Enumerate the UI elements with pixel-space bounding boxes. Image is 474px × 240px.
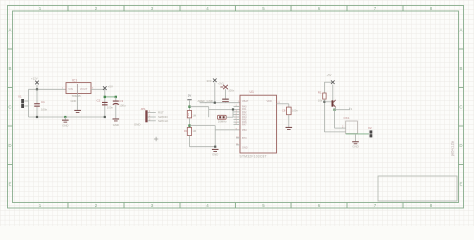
- opto OK1 box: [346, 121, 358, 134]
- regulator IC1: [66, 83, 91, 94]
- wire VDD down: [288, 104, 290, 107]
- frame row letters right: [459, 28, 462, 187]
- green wire to X2: [346, 133, 369, 135]
- wire C1 bottom: [36, 107, 38, 117]
- frame column ticks top: [68, 6, 403, 12]
- sheet origin cross: [154, 137, 158, 141]
- svg-text:VBAT: VBAT: [242, 100, 249, 103]
- svg-text:100n: 100n: [41, 108, 48, 112]
- svg-text:C: C: [459, 105, 462, 110]
- wire xtal1 to IC: [209, 108, 240, 110]
- regulator gnd pin: [77, 94, 79, 110]
- crystal Q1: [218, 115, 227, 119]
- svg-text:1M: 1M: [192, 129, 196, 133]
- pin stubs left: [234, 107, 241, 145]
- svg-text:C3: C3: [119, 99, 123, 103]
- pin numbers left: [236, 101, 240, 145]
- junction gnd run: [214, 146, 216, 148]
- supply star symbol: [220, 85, 228, 89]
- wire to net stub: [335, 109, 350, 111]
- svg-text:1M: 1M: [192, 114, 196, 118]
- connector X1: [21, 99, 24, 103]
- svg-text:PA7: PA7: [242, 124, 247, 127]
- svg-text:R3: R3: [184, 129, 188, 133]
- svg-text:100n: 100n: [228, 88, 234, 92]
- JP1 pin 3: [148, 120, 156, 122]
- wire xtal2 route: [214, 126, 216, 147]
- svg-text:100n: 100n: [292, 108, 298, 112]
- junction C1 bottom: [36, 116, 38, 118]
- supply X right: [331, 80, 335, 84]
- svg-text:SWCLK: SWCLK: [158, 119, 168, 123]
- svg-text:B: B: [460, 66, 463, 71]
- wire regulator output: [91, 88, 105, 90]
- op IC U1 box: [240, 95, 277, 153]
- wire output down: [104, 89, 106, 117]
- capacitor C2: [102, 102, 108, 103]
- resistor R5: [323, 93, 326, 99]
- ground opto: [352, 141, 359, 142]
- wire supply down: [214, 83, 216, 103]
- svg-text:VIN: VIN: [68, 87, 73, 91]
- wire C3 bottom: [115, 105, 117, 119]
- connector JP1: [145, 110, 147, 122]
- svg-text:A: A: [460, 28, 463, 33]
- frame row ticks right: [459, 49, 464, 165]
- svg-text:2V: 2V: [188, 94, 192, 98]
- node junction on input rail: [36, 88, 38, 90]
- svg-text:PB0: PB0: [242, 129, 247, 132]
- svg-text:B: B: [9, 66, 12, 71]
- svg-text:GND: GND: [242, 147, 248, 150]
- svg-text:GND: GND: [62, 124, 68, 128]
- supply +5V symbol: [103, 86, 107, 90]
- frame column numbers bottom: [39, 203, 433, 208]
- junction xtal1: [232, 108, 234, 110]
- ground GND1: [64, 117, 66, 120]
- wire C1 top: [36, 89, 38, 103]
- wire C5 to aref: [225, 101, 227, 104]
- svg-text:16MHz: 16MHz: [218, 120, 227, 124]
- svg-text:RST: RST: [158, 111, 164, 115]
- svg-text:78M05: 78M05: [72, 94, 82, 98]
- svg-text:10k: 10k: [318, 98, 323, 102]
- wire supply to rail: [36, 85, 38, 90]
- svg-text:X1: X1: [18, 95, 22, 99]
- ground mid: [212, 149, 219, 150]
- wire AREF to IC: [200, 102, 240, 104]
- supply bar R net top: [187, 98, 191, 101]
- svg-text:+5V: +5V: [327, 73, 332, 77]
- wire down from emitter: [334, 110, 336, 128]
- svg-text:pcb v1.2a: pcb v1.2a: [451, 141, 455, 156]
- svg-text:C8: C8: [282, 108, 286, 112]
- svg-text:C1: C1: [41, 100, 45, 104]
- crystal right stub: [226, 116, 233, 118]
- svg-text:STM32F103C8T: STM32F103C8T: [240, 155, 267, 159]
- svg-text:R2: R2: [186, 112, 190, 116]
- ground right of IC: [286, 127, 293, 128]
- ground under regulator: [74, 110, 81, 111]
- wire vertical input: [28, 89, 30, 117]
- resistor R3 vertical: [187, 128, 191, 136]
- svg-text:VOUT: VOUT: [80, 87, 88, 91]
- junction AREF: [214, 102, 216, 104]
- supply +12V symbol: [35, 81, 39, 85]
- wire chain lower to xtal2: [190, 125, 216, 127]
- JP1 pin 1: [148, 112, 156, 114]
- pin names inside: [242, 100, 272, 150]
- wire R5 bottom: [323, 99, 325, 132]
- junction emitter green: [333, 109, 335, 111]
- wire top cap chain: [189, 100, 191, 110]
- svg-text:GND: GND: [134, 122, 140, 126]
- junction base: [323, 101, 325, 103]
- svg-text:R1: R1: [318, 91, 322, 95]
- svg-text:D: D: [459, 143, 462, 148]
- svg-text:IC1: IC1: [72, 79, 77, 83]
- frame row letters left: [8, 28, 11, 187]
- capacitor C3 electrolytic: [115, 97, 117, 101]
- junction gnd tap: [64, 116, 66, 118]
- JP1 pin 2: [148, 116, 156, 118]
- svg-text:E: E: [9, 182, 12, 187]
- junction green left: [104, 96, 106, 98]
- wire top rail: [324, 81, 332, 83]
- wire gnd run: [190, 146, 216, 148]
- wire opto gnd: [355, 134, 357, 141]
- wire R4 bottom: [288, 115, 290, 127]
- connector X2: [370, 130, 373, 133]
- junction C2 bottom: [104, 116, 106, 118]
- svg-text:X2: X2: [368, 126, 372, 130]
- wire R3 bottom: [189, 135, 191, 146]
- wire input rail: [29, 88, 67, 90]
- wire star to C5: [225, 89, 227, 98]
- frame row ticks left: [8, 49, 13, 165]
- frame column numbers top: [39, 6, 433, 11]
- svg-text:E: E: [460, 182, 463, 187]
- svg-text:A: A: [9, 28, 12, 33]
- wire chain to crystal left: [190, 106, 209, 108]
- svg-text:GND: GND: [352, 145, 358, 149]
- junction green lower chain: [188, 124, 190, 126]
- wire to opto pin2: [324, 131, 345, 133]
- svg-text:+3V3: +3V3: [218, 81, 225, 85]
- svg-text:100n: 100n: [107, 106, 114, 110]
- svg-text:GND: GND: [71, 99, 77, 103]
- svg-text:C: C: [8, 105, 11, 110]
- junction green top chain: [188, 106, 190, 108]
- svg-text:BT0: BT0: [242, 137, 247, 140]
- pin stub right VDD: [277, 103, 289, 105]
- wire ground rail: [29, 116, 105, 118]
- svg-text:+12V: +12V: [31, 77, 38, 81]
- capacitor C1: [34, 103, 40, 104]
- wire rail to R5: [323, 82, 325, 93]
- connector pin stubs: [24, 100, 28, 102]
- wire to opto pin1: [335, 127, 346, 129]
- supply +3V3 symbol: [213, 79, 217, 83]
- svg-text:100u: 100u: [119, 103, 126, 107]
- svg-text:VDD: VDD: [267, 100, 272, 103]
- svg-text:+5V: +5V: [108, 85, 113, 89]
- frame inner border: [13, 11, 459, 203]
- ground under C3: [113, 118, 120, 119]
- capacitor C5: [222, 99, 229, 100]
- svg-text:U1: U1: [250, 90, 254, 94]
- svg-text:D: D: [8, 143, 11, 148]
- svg-text:C2: C2: [97, 98, 101, 102]
- wire emitter stub: [335, 108, 336, 110]
- svg-text:OK1: OK1: [344, 116, 350, 120]
- green wire output branch: [105, 96, 116, 98]
- transistor T1: [332, 100, 334, 106]
- wire between resistors: [189, 118, 191, 128]
- svg-text:3V3: 3V3: [207, 79, 212, 83]
- frame column ticks bottom: [68, 203, 403, 209]
- resistor R2 vertical: [187, 111, 191, 118]
- svg-text:JP1: JP1: [141, 107, 147, 111]
- resistor R4 vertical: [287, 107, 292, 115]
- junction green right: [115, 96, 117, 98]
- wire base: [324, 101, 331, 103]
- svg-text:GND: GND: [212, 153, 218, 157]
- svg-text:GND: GND: [113, 123, 119, 127]
- title block: [378, 176, 457, 201]
- wire down to transistor: [332, 85, 334, 101]
